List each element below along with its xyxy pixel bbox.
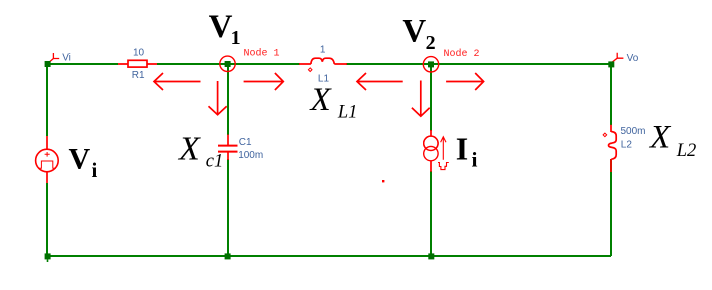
svg-text:L1: L1 <box>337 102 358 122</box>
svg-text:Vi: Vi <box>62 53 71 64</box>
svg-text:Node 2: Node 2 <box>444 48 480 60</box>
svg-text:1: 1 <box>320 45 326 56</box>
svg-text:L2: L2 <box>676 141 697 161</box>
svg-text:i: i <box>92 158 98 182</box>
svg-text:Vo: Vo <box>627 53 639 64</box>
svg-text:100m: 100m <box>238 150 263 161</box>
svg-text:X: X <box>177 131 201 168</box>
svg-text:X: X <box>309 82 333 118</box>
svg-text:I: I <box>456 131 468 167</box>
svg-text:V: V <box>402 13 426 49</box>
svg-text:2: 2 <box>426 32 436 54</box>
svg-text:R1: R1 <box>132 70 145 81</box>
svg-text:V: V <box>69 143 91 176</box>
svg-text:500m: 500m <box>621 126 646 137</box>
svg-text:c1: c1 <box>206 152 223 172</box>
svg-text:L2: L2 <box>621 140 633 151</box>
svg-text:10: 10 <box>133 48 145 59</box>
svg-text:1: 1 <box>231 27 241 49</box>
svg-text:C1: C1 <box>239 137 252 148</box>
svg-text:i: i <box>472 148 478 172</box>
svg-text:Node 1: Node 1 <box>244 48 280 60</box>
svg-text:X: X <box>648 120 672 156</box>
svg-text:V: V <box>209 9 233 45</box>
